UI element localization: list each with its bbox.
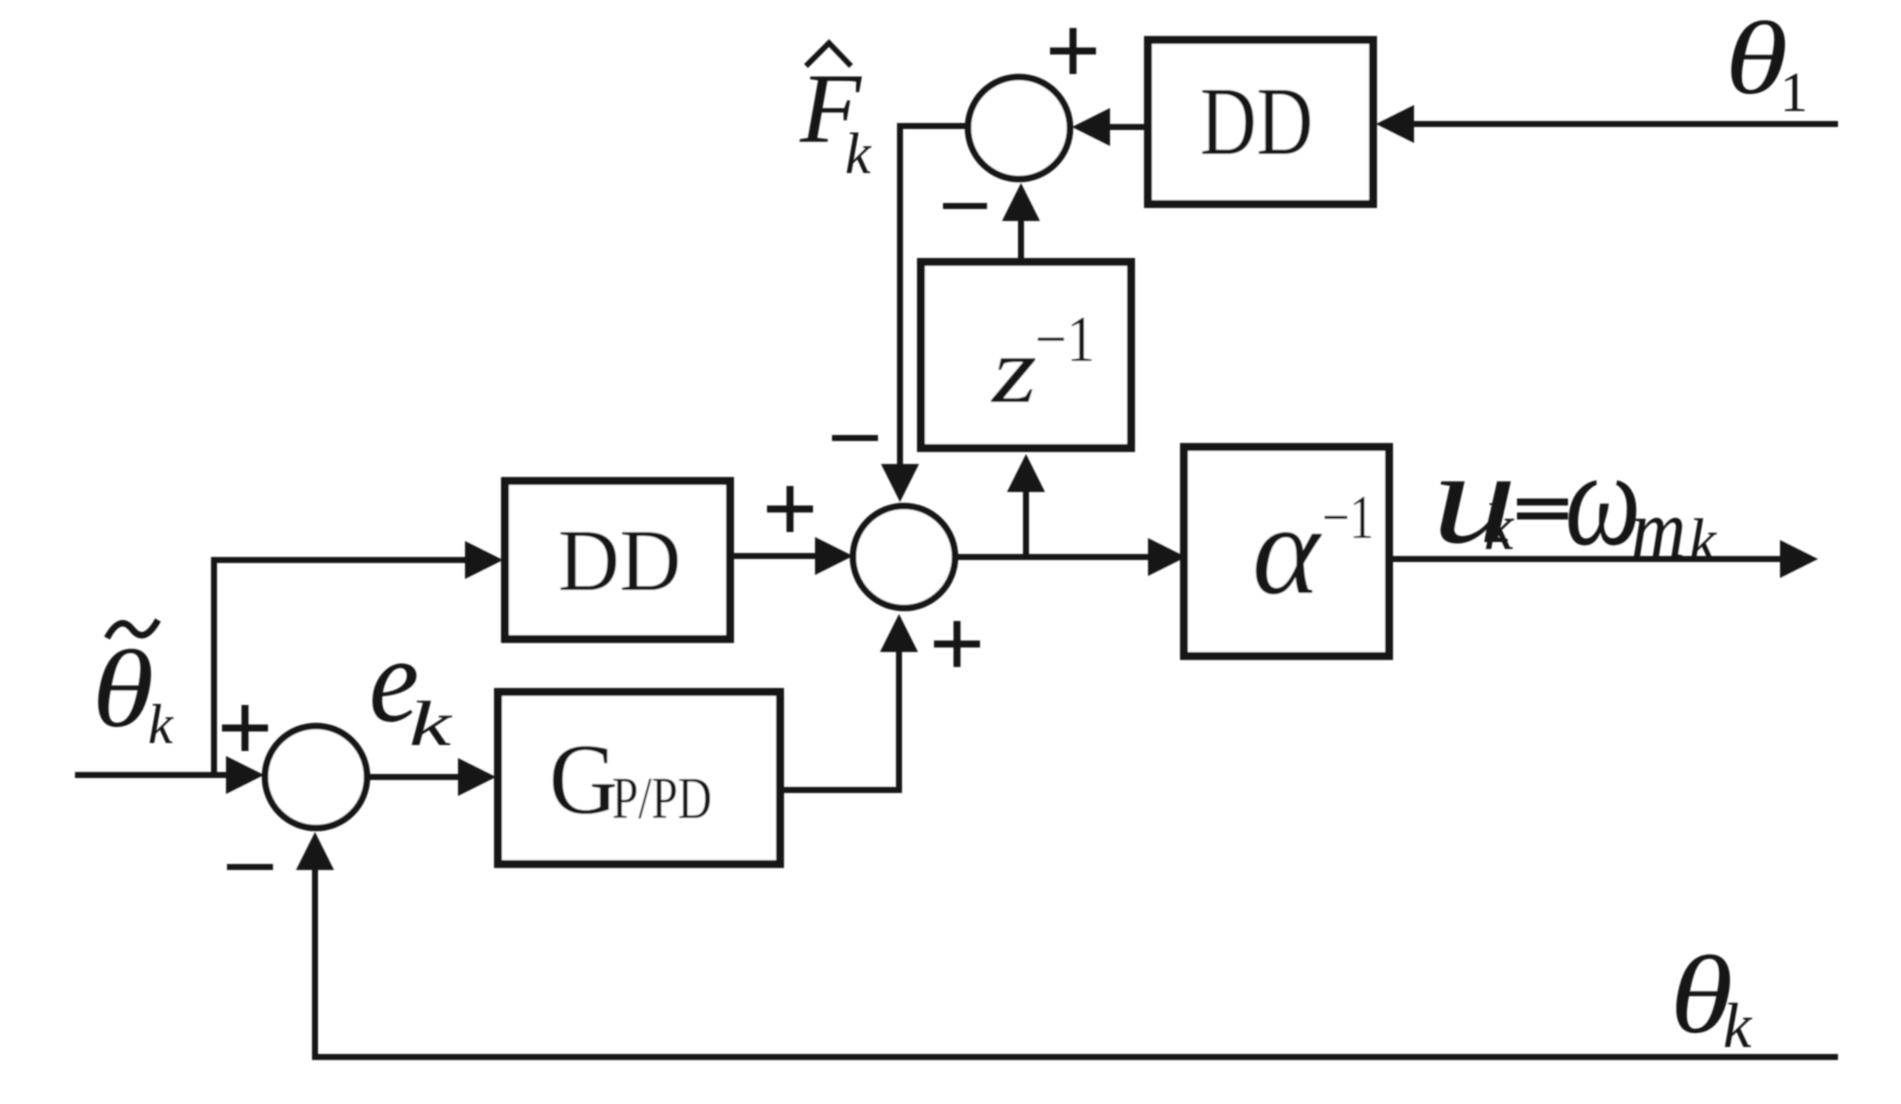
wire top junction left then down to middle junction <box>900 126 968 464</box>
arrowhead into DD top right edge <box>1376 105 1414 143</box>
arrowhead output right <box>1780 540 1818 578</box>
wire G output right and up into middle summing junction bottom <box>780 652 899 790</box>
svg-text:θ: θ <box>1725 1 1788 116</box>
plus sign at lower summing junction <box>222 705 268 751</box>
svg-text:k: k <box>845 121 872 186</box>
summing junction lower left <box>265 726 367 828</box>
plus sign below right of middle summing junction <box>934 621 980 667</box>
arrowhead into top summing junction right <box>1072 108 1110 146</box>
arrowhead into middle summing junction left <box>815 537 853 575</box>
wire theta1 input top right <box>1412 121 1838 127</box>
plus sign at top summing junction <box>1050 28 1096 74</box>
svg-text:α: α <box>1252 478 1322 621</box>
minus sign below top summing junction <box>943 203 987 209</box>
block alpha^-1 <box>1184 447 1389 656</box>
svg-text:z: z <box>990 317 1037 423</box>
wire feedback bottom from theta_k to lower summing junction <box>315 870 1838 1057</box>
wire alpha output <box>1389 556 1780 562</box>
block DD (middle) <box>505 481 730 639</box>
wire branch up from input to middle DD <box>214 560 465 775</box>
wire middle DD to middle summing junction <box>730 553 815 559</box>
svg-text:k: k <box>1723 990 1753 1061</box>
svg-text:k: k <box>409 688 453 759</box>
svg-text:k: k <box>148 694 174 756</box>
arrowhead up into lower summing junction bottom <box>296 832 334 870</box>
block z^-1 <box>921 262 1131 448</box>
wire DD(top) to top summing junction <box>1110 124 1148 130</box>
block DD (top) <box>1148 40 1373 204</box>
svg-text:ω: ω <box>1565 424 1641 574</box>
plus sign on DD output <box>767 486 813 532</box>
hat accent of Fhat <box>806 43 851 66</box>
arrowhead up into middle summing junction bottom <box>880 614 918 652</box>
svg-text:k: k <box>1689 508 1717 575</box>
svg-text:G: G <box>549 723 618 835</box>
wire lower junction to G block <box>367 774 458 780</box>
minus sign above middle summing junction <box>832 435 878 441</box>
arrowhead into lower summing junction left <box>226 756 264 794</box>
svg-text:1: 1 <box>1780 62 1808 124</box>
wire branch up into z-1 bottom <box>1023 492 1029 557</box>
arrowhead into alpha block left <box>1148 538 1186 576</box>
arrowhead up into top summing junction bottom <box>1002 183 1040 221</box>
arrowhead up into z-1 bottom <box>1007 454 1045 492</box>
minus sign below lower summing junction <box>227 864 273 870</box>
arrowhead into G block left <box>458 758 496 796</box>
svg-text:−1: −1 <box>1035 303 1095 376</box>
svg-text:DD: DD <box>1200 68 1313 175</box>
wire middle junction to alpha block with branch up to z-1 <box>955 554 1148 560</box>
arrowhead into middle DD left <box>465 541 503 579</box>
summing junction top <box>968 77 1070 179</box>
block G_P/PD <box>498 692 780 864</box>
tilde accent <box>107 620 158 638</box>
svg-text:P/PD: P/PD <box>612 765 712 831</box>
wire input to lower summing junction <box>75 772 227 778</box>
wire z-1 up to top summing junction bottom <box>1018 221 1024 262</box>
svg-text:θ: θ <box>92 628 154 750</box>
svg-text:DD: DD <box>558 513 681 610</box>
svg-text:k: k <box>1484 491 1515 564</box>
svg-text:−1: −1 <box>1322 484 1374 552</box>
summing junction middle <box>853 506 955 608</box>
svg-text:m: m <box>1631 483 1686 576</box>
arrowhead down into middle summing junction top <box>881 464 919 502</box>
